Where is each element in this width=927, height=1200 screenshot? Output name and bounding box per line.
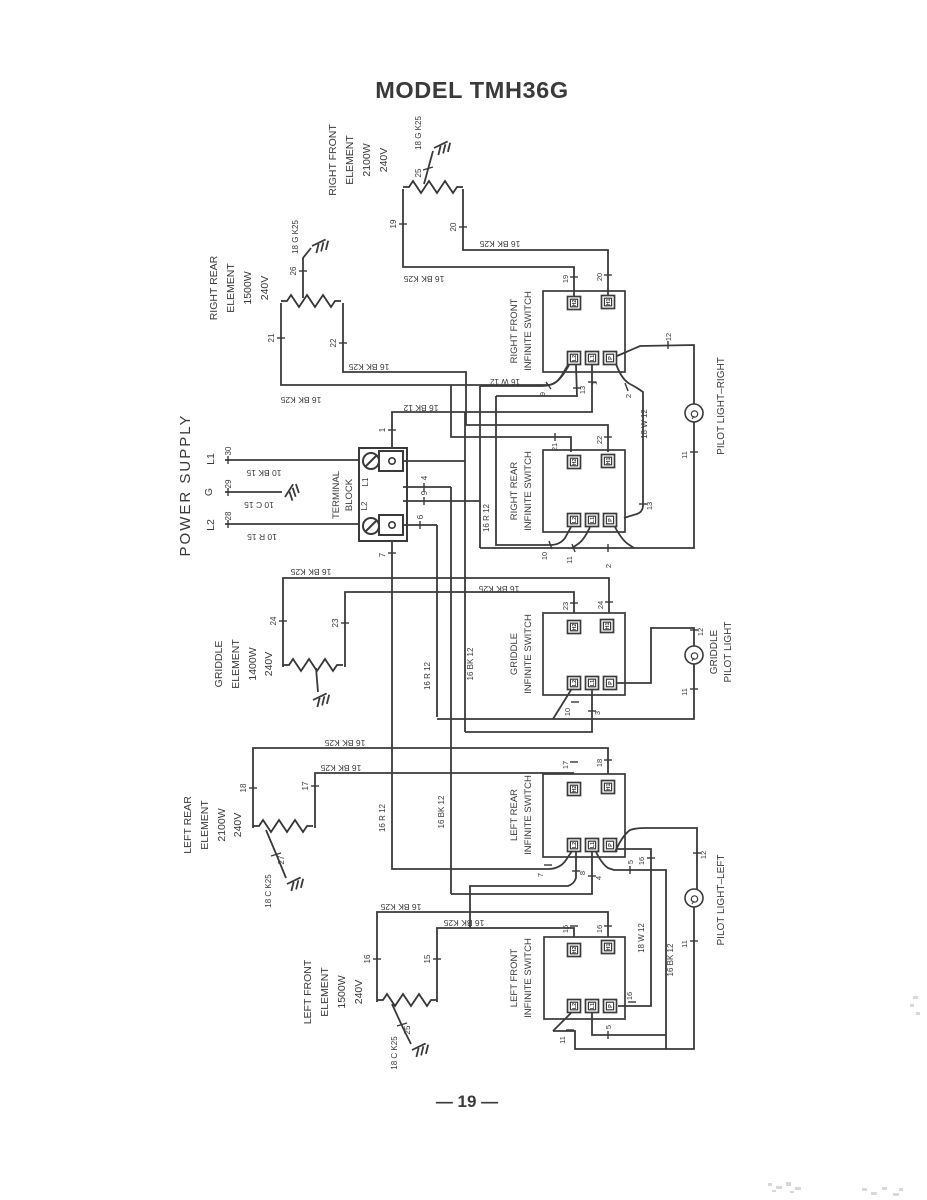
svg-text:H2: H2 [572,946,578,953]
S4 terminal P [604,839,617,852]
svg-text:POWER SUPPLY: POWER SUPPLY [177,414,194,557]
node 8 tick [572,870,580,872]
S1 terminal H2 [568,297,581,310]
svg-text:LEFT FRONT: LEFT FRONT [509,949,520,1008]
wire 5 S5 L1 down [592,1013,666,1035]
svg-text:240V: 240V [378,148,390,173]
ground chassis supply [283,483,302,502]
svg-text:L2: L2 [572,842,578,848]
svg-text:INFINITE SWITCH: INFINITE SWITCH [523,775,534,855]
scan noise bottom right [768,996,920,1196]
node 13 tick [573,387,581,389]
svg-text:6: 6 [416,514,425,519]
node 29 [227,488,229,496]
S3 terminal P [604,677,617,690]
svg-text:PILOT LIGHT: PILOT LIGHT [723,622,734,683]
svg-text:16 BK K25: 16 BK K25 [380,902,421,912]
node 18 [249,787,257,789]
svg-text:P: P [608,1004,614,1008]
svg-text:13: 13 [645,502,654,510]
node 13 tick low [639,503,647,505]
svg-text:27: 27 [277,855,286,864]
svg-text:GRIDDLE: GRIDDLE [213,641,225,688]
switch S2 right rear infinite switch box [543,450,625,532]
node 22 [339,342,347,344]
resistor right front element [403,181,463,193]
wire 18 LR left lead [253,748,608,828]
node 11 tick pilot right [690,451,698,453]
svg-text:ELEMENT: ELEMENT [199,800,211,850]
svg-text:16 BK K25: 16 BK K25 [348,362,389,372]
svg-text:2: 2 [604,564,613,568]
wire 11 griddle pilot down [437,664,694,719]
svg-text:9: 9 [420,490,429,495]
node 4 tick [423,483,425,491]
svg-text:16 BK K25: 16 BK K25 [443,918,484,928]
svg-text:11: 11 [680,688,689,696]
svg-text:ELEMENT: ELEMENT [344,135,356,185]
wire 12 S4 P to pilot left [615,828,697,889]
node 3 tick [588,710,596,712]
griddle element labels [213,639,275,689]
right front element R-RF label [327,124,390,196]
node 4 tick at S4 [588,875,596,877]
svg-text:12: 12 [664,333,673,341]
terminal block tab bottom [379,515,403,535]
svg-text:19: 19 [389,219,398,228]
node 11 tick griddle [690,688,698,690]
svg-text:GRIDDLE: GRIDDLE [709,629,720,674]
wire RR L1 to bottom run [572,527,590,548]
svg-text:12: 12 [699,851,708,859]
svg-text:16 R 12: 16 R 12 [423,661,432,690]
svg-text:25: 25 [414,168,423,177]
switch S3 griddle infinite switch box [543,613,625,695]
svg-text:L2: L2 [572,355,578,361]
node 10 tick at RR L2 [549,541,552,549]
svg-text:INFINITE SWITCH: INFINITE SWITCH [523,291,534,371]
node 5 tick at S5 [607,1031,609,1039]
pilot light griddle [685,646,703,664]
svg-text:P: P [608,681,614,685]
S5 terminal H2 [568,944,581,957]
wire 21 RR left lead long run [281,303,568,385]
svg-text:1: 1 [378,427,387,432]
S3 terminal L2 [568,677,581,690]
svg-text:18 W 12: 18 W 12 [637,923,646,953]
right rear element labels [208,255,271,320]
svg-text:30: 30 [224,446,233,455]
svg-text:G: G [203,488,215,496]
left front element labels [302,959,365,1024]
node 21 [277,337,285,339]
svg-text:18: 18 [595,759,604,767]
node 1 tick near TB [388,429,396,431]
svg-text:— 19 —: — 19 — [436,1092,498,1111]
wire 7 from TB bottom down [392,541,572,869]
wire 8 S4 L2 down [470,852,576,928]
S2 terminal H2 [568,456,581,469]
wire griddle ground branch [316,668,318,692]
svg-text:10 R 15: 10 R 15 [247,532,277,542]
svg-text:L2: L2 [205,519,217,531]
svg-text:1400W: 1400W [247,647,259,680]
node 9 tick at RF [546,382,551,389]
node 20 [459,226,467,228]
svg-text:23: 23 [331,618,340,627]
svg-text:L1: L1 [590,680,596,686]
svg-text:18 C K25: 18 C K25 [390,1036,399,1070]
node 24 [279,620,287,622]
svg-text:PILOT LIGHT–RIGHT: PILOT LIGHT–RIGHT [716,357,727,455]
svg-text:H2: H2 [572,458,578,465]
svg-text:16 BK 12: 16 BK 12 [437,795,446,828]
S5 terminal P [604,1000,617,1013]
svg-text:22: 22 [595,436,604,444]
node 25 tick RF [423,167,433,170]
wire 17 LR right lead [315,773,574,828]
svg-text:ELEMENT: ELEMENT [225,263,237,313]
node 11 tick pilot left [690,940,698,942]
node 11 tick at RR L1 [572,544,575,552]
svg-text:16 BK K25: 16 BK K25 [320,763,361,773]
svg-text:LEFT FRONT: LEFT FRONT [302,959,314,1024]
wire LF ground branch [392,1004,411,1044]
resistor right rear element [281,295,341,307]
svg-text:16 W 12: 16 W 12 [490,377,520,386]
switch S1 right front infinite switch box [543,291,625,372]
ground chassis LF [411,1043,430,1058]
svg-text:8: 8 [578,871,587,875]
svg-text:2: 2 [624,394,633,398]
terminal block screw bottom [363,518,379,534]
ground chassis griddle [312,693,331,708]
svg-text:H1: H1 [606,943,612,950]
pilot light right [685,404,703,422]
svg-text:11: 11 [680,451,689,459]
wire 9 from RF L2 [480,365,569,386]
node 7 tick near LR switch [544,864,552,866]
svg-text:GRIDDLE: GRIDDLE [509,633,520,675]
svg-text:18 G K25: 18 G K25 [414,116,423,150]
svg-text:240V: 240V [259,276,271,301]
node 18 tick at S4 [604,759,612,761]
node 10 tick griddle [571,701,579,703]
svg-text:7: 7 [536,873,545,877]
wire 11 pilot left down [553,907,694,1049]
wire 4 stub from TB [403,487,451,894]
wire 5 S4 L1 to vertical [596,852,666,1049]
svg-text:BLOCK: BLOCK [344,478,355,511]
node 22 tick at switch [604,436,612,438]
svg-text:L2: L2 [572,517,578,523]
resistor left rear element [253,820,313,832]
svg-text:ELEMENT: ELEMENT [319,967,331,1017]
S2 terminal H1 [602,455,615,468]
svg-text:RIGHT FRONT: RIGHT FRONT [327,124,339,196]
switch S5 left front infinite switch box [544,937,625,1019]
node 12 tick left [693,852,701,854]
svg-text:L2: L2 [572,1003,578,1009]
svg-text:28: 28 [224,511,233,520]
svg-text:16 BK K25: 16 BK K25 [324,738,365,748]
S1 terminal H1 [602,296,615,309]
terminal block TB1 body [359,448,407,541]
svg-text:H1: H1 [606,298,612,305]
svg-text:TERMINAL: TERMINAL [331,471,342,519]
svg-text:240V: 240V [232,813,244,838]
wire 23 griddle right lead [345,592,574,667]
wire 28 supply L2 [225,523,359,525]
svg-text:INFINITE SWITCH: INFINITE SWITCH [523,451,534,531]
node 1 tick at RF L1 [588,381,596,383]
S4 terminal H1 [602,781,615,794]
svg-text:19: 19 [561,275,570,283]
wire 16 S4 P chain down [617,849,651,1006]
svg-text:24: 24 [269,616,278,625]
svg-text:240V: 240V [353,980,365,1005]
S5 terminal L2 [568,1000,581,1013]
node 12 tick [667,341,669,349]
S5 terminal H1 [602,941,615,954]
svg-text:18 W 12: 18 W 12 [640,409,649,439]
node 21 tick at switch [553,433,555,441]
node 19 tick at switch [570,276,578,278]
node 26 tick [299,270,307,272]
svg-text:INFINITE SWITCH: INFINITE SWITCH [523,938,534,1018]
node 16 tick at S5 P [628,1001,636,1003]
svg-text:H1: H1 [606,783,612,790]
wire 24 griddle left lead [283,578,609,667]
node 17 [311,785,319,787]
pilot light left [685,889,703,907]
svg-text:10: 10 [563,708,572,716]
node 16 tick at S5 [604,925,612,927]
svg-text:16 BK K25: 16 BK K25 [479,239,520,249]
svg-text:ELEMENT: ELEMENT [230,639,242,689]
S3 terminal H2 [568,621,581,634]
ground chassis RR [311,239,330,254]
resistor left front element [377,994,437,1006]
node 2 tick [625,383,628,391]
node 15 [433,958,441,960]
svg-text:16 BK K25: 16 BK K25 [403,274,444,284]
svg-text:18: 18 [239,783,248,792]
node 19 [399,223,407,225]
svg-text:RIGHT REAR: RIGHT REAR [208,255,220,320]
svg-text:L1: L1 [590,355,596,361]
svg-text:10 C 15: 10 C 15 [244,500,274,510]
node 23 [341,622,349,624]
svg-text:16: 16 [363,954,372,963]
wire 30 supply L1 [225,459,359,461]
switch S4 left rear infinite switch box [543,774,625,857]
svg-text:H2: H2 [572,785,578,792]
wire 22 RR right lead [343,303,608,452]
node 24 tick at S3 [605,601,613,603]
svg-text:12: 12 [696,628,705,636]
svg-text:5: 5 [626,860,635,864]
svg-text:LEFT REAR: LEFT REAR [509,789,520,841]
node 25 tick LF [397,1023,407,1026]
wire 12 RF P to pilot right [617,345,694,404]
node 17 tick at S4 [570,761,578,763]
svg-text:16 BK K25: 16 BK K25 [290,567,331,577]
wire RR P to bottom run [615,527,634,548]
svg-text:26: 26 [289,266,298,275]
svg-text:5: 5 [604,1025,613,1029]
svg-text:H2: H2 [572,623,578,630]
svg-text:16 BK K25: 16 BK K25 [280,395,321,405]
svg-text:RIGHT REAR: RIGHT REAR [509,462,520,521]
wire 19 RF left lead [403,189,574,296]
svg-text:11: 11 [565,556,574,564]
svg-text:20: 20 [595,273,604,281]
svg-text:L1: L1 [361,477,370,486]
S4 terminal L2 [568,839,581,852]
svg-text:INFINITE SWITCH: INFINITE SWITCH [523,614,534,694]
node 9 tick [423,497,425,505]
svg-text:P: P [608,356,614,360]
wire RF ground branch [424,151,433,184]
svg-text:25: 25 [403,1025,412,1034]
svg-text:22: 22 [329,338,338,347]
svg-text:16 BK 12: 16 BK 12 [666,943,675,976]
node 5 tick [629,866,631,874]
node 11 tick at S5 [566,1029,574,1031]
svg-text:17: 17 [561,761,570,769]
wire 16 LF left lead [377,912,608,1002]
S1 terminal L1 [586,352,599,365]
wire 20 RF right lead [463,189,608,296]
svg-text:L1: L1 [590,842,596,848]
wire 9 stub from TB [403,386,480,548]
svg-text:16: 16 [595,925,604,933]
svg-text:15: 15 [561,925,570,933]
svg-text:H1: H1 [606,457,612,464]
svg-text:18 G K25: 18 G K25 [291,220,300,254]
svg-text:L1: L1 [205,453,217,465]
wire 11 pilot right down to RR [480,422,694,548]
svg-text:16 BK K25: 16 BK K25 [478,584,519,594]
wire stub TB L1 tab to vertical [403,412,465,732]
svg-text:29: 29 [224,479,233,488]
svg-text:L2: L2 [572,680,578,686]
svg-text:11: 11 [680,940,689,948]
wire 21 drop to RR H2 [451,385,571,452]
node 15 tick at S5 [570,925,578,927]
wire 6 stub from TB [403,525,437,717]
node 28 [227,520,229,528]
svg-text:16 R 12: 16 R 12 [482,503,491,532]
wire 10 S3 L2 to run [553,690,571,719]
wire S5 L2 to corner [553,1013,571,1031]
svg-text:H2: H2 [572,299,578,306]
wire RR ground branch [303,248,311,298]
svg-text:240V: 240V [263,652,275,677]
svg-text:MODEL TMH36G: MODEL TMH36G [375,77,568,103]
node 24 tick on bottom run [607,544,609,552]
S4 terminal L1 [586,839,599,852]
svg-text:PILOT LIGHT–LEFT: PILOT LIGHT–LEFT [716,855,727,946]
node 6 tick [419,521,421,529]
svg-text:L1: L1 [590,517,596,523]
svg-text:7: 7 [378,552,387,557]
svg-text:RIGHT FRONT: RIGHT FRONT [509,298,520,363]
node 7 tick near TB [388,552,396,554]
svg-text:10 BK 15: 10 BK 15 [246,468,281,478]
svg-text:17: 17 [301,781,310,790]
svg-text:P: P [608,843,614,847]
svg-text:1: 1 [590,381,599,385]
svg-text:16: 16 [625,992,634,1000]
svg-text:L1: L1 [590,1003,596,1009]
svg-text:16 BK 12: 16 BK 12 [403,403,438,413]
S2 terminal P [604,514,617,527]
svg-text:21: 21 [267,333,276,342]
resistor griddle element [283,659,343,671]
svg-text:4: 4 [594,876,603,880]
svg-text:20: 20 [449,222,458,231]
svg-text:4: 4 [420,475,429,480]
wire 4 S4 L1 down [451,852,592,894]
svg-text:1500W: 1500W [242,271,254,304]
S1 terminal L2 [568,352,581,365]
terminal block tab top [379,451,403,471]
svg-text:16: 16 [637,857,646,865]
wire 12 S3 P to griddle pilot [616,628,694,683]
S2 terminal L1 [586,514,599,527]
svg-text:2100W: 2100W [216,808,228,841]
svg-text:2100W: 2100W [361,143,373,176]
node 12 tick griddle [690,629,698,631]
S3 terminal L1 [586,677,599,690]
wire LR ground branch [266,830,286,878]
wire 3 S3 L1 down [465,690,592,732]
svg-text:H1: H1 [605,622,611,629]
svg-text:16 BK 12: 16 BK 12 [466,647,475,680]
node 16 tick [647,857,655,859]
ground chassis RF [433,141,452,156]
svg-text:LEFT REAR: LEFT REAR [182,796,194,854]
S2 terminal L2 [568,514,581,527]
svg-text:24: 24 [596,601,605,609]
node 20 tick at switch [604,274,612,276]
wire 15 LF right lead [437,928,574,1002]
svg-text:13: 13 [578,386,587,394]
wire 1 from TB top to RF L1 [392,365,592,448]
svg-text:23: 23 [561,602,570,610]
wire 2 from RF P down [616,364,643,518]
ground chassis LR [286,877,305,892]
svg-text:1500W: 1500W [336,975,348,1008]
svg-text:11: 11 [558,1036,567,1044]
S5 terminal L1 [586,1000,599,1013]
svg-text:15: 15 [423,954,432,963]
left rear element labels [182,796,244,854]
S4 terminal H2 [568,783,581,796]
wire 29 supply ground [225,491,282,493]
node 30 [227,456,229,464]
svg-text:18 C K25: 18 C K25 [264,874,273,908]
node 23 tick at S3 [570,602,578,604]
node 27 tick [271,853,281,856]
svg-text:16 R 12: 16 R 12 [378,803,387,832]
S1 terminal P [604,352,617,365]
S3 terminal H1 [601,620,614,633]
svg-text:3: 3 [593,711,602,715]
node 16 [373,958,381,960]
